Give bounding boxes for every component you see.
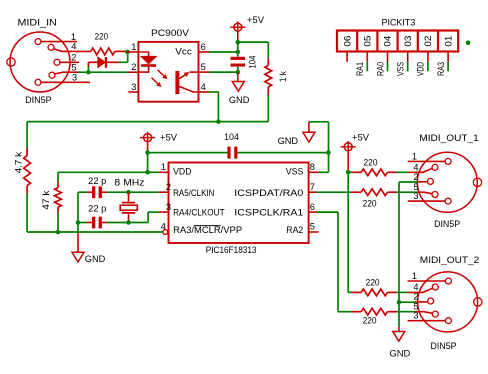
header J1 body bbox=[337, 31, 458, 52]
wire 47k top to VDD net bbox=[58, 171, 148, 173]
microcontroller U2 value label bbox=[206, 245, 257, 255]
header J1 pin 06 stub bbox=[346, 52, 348, 62]
svg-text:Vcc: Vcc bbox=[175, 47, 192, 57]
wire OUT1 pin2 to GND net bbox=[399, 182, 417, 302]
svg-text:5: 5 bbox=[72, 62, 77, 72]
+5V supply symbol (PIC) bbox=[140, 132, 178, 153]
svg-text:+5V: +5V bbox=[352, 133, 370, 143]
wire GND/cap to VSS bbox=[319, 122, 329, 173]
opto-coupler U1 body bbox=[138, 42, 198, 102]
header J1 pin 06 label bbox=[342, 36, 352, 47]
opto-coupler U1 pin 5 bbox=[199, 62, 210, 72]
svg-text:4: 4 bbox=[413, 162, 418, 172]
svg-text:MIDI_OUT_1: MIDI_OUT_1 bbox=[419, 133, 479, 143]
svg-text:4: 4 bbox=[413, 282, 418, 292]
header J1 pin 04 label bbox=[383, 36, 393, 47]
wire diode anode to pin5 net bbox=[87, 62, 89, 72]
svg-text:ICSPDAT/RA0: ICSPDAT/RA0 bbox=[234, 188, 303, 198]
svg-text:220: 220 bbox=[364, 158, 378, 168]
header J1 pin 01 label bbox=[443, 36, 453, 47]
ground symbol (MIDI_OUT) bbox=[393, 327, 405, 341]
microcontroller U2 pin 8 VSS bbox=[286, 162, 319, 177]
connector MIDI_OUT_2 pin 2 bbox=[413, 292, 433, 304]
wire MCLR net bbox=[27, 231, 163, 233]
connector MIDI_IN pin 5 bbox=[49, 62, 78, 78]
capacitor 22p upper value label bbox=[88, 176, 106, 186]
microcontroller U2 pin 6 ICSPCLK/RA1 bbox=[234, 202, 316, 217]
svg-text:GND: GND bbox=[389, 349, 410, 359]
resistor 220 (OUT1 +5V) bbox=[348, 169, 408, 176]
svg-text:104: 104 bbox=[248, 56, 258, 69]
wire 1k to output net bbox=[267, 95, 269, 122]
svg-text:2: 2 bbox=[413, 172, 418, 182]
header J1 pin stub net RA0 bbox=[387, 52, 389, 72]
wire PC900V pin5 to GND node bbox=[209, 71, 238, 73]
ground symbol (PC900V) bbox=[232, 72, 244, 91]
svg-text:MIDI_OUT_2: MIDI_OUT_2 bbox=[420, 255, 480, 265]
connector MIDI_OUT_1 DIN5P body bbox=[417, 152, 481, 212]
junction node +5V out bbox=[346, 170, 351, 175]
svg-text:4: 4 bbox=[201, 82, 206, 92]
svg-text:3: 3 bbox=[166, 202, 171, 212]
connector MIDI_OUT_1 DIN5P label bbox=[434, 219, 460, 229]
svg-text:RA3: RA3 bbox=[436, 62, 446, 76]
svg-text:3: 3 bbox=[413, 311, 418, 321]
capacitor 22p lower value label bbox=[88, 203, 106, 213]
microcontroller U2 pin 7 ICSPDAT/RA0 bbox=[234, 182, 316, 198]
opto-coupler U1 light arrows bbox=[152, 70, 167, 87]
svg-text:7: 7 bbox=[310, 182, 315, 192]
svg-text:DIN5P: DIN5P bbox=[434, 219, 460, 229]
junction node at R220/PC900V pin1 bbox=[125, 50, 130, 55]
svg-text:RA0: RA0 bbox=[375, 62, 385, 76]
crystal Q1 8MHz bbox=[120, 192, 137, 222]
svg-text:GND: GND bbox=[229, 95, 250, 105]
resistor 220 value label bbox=[95, 31, 109, 41]
resistor 220 (OUT1 +5V) value label bbox=[364, 158, 378, 168]
header J1 pin stub net RA1 bbox=[366, 52, 368, 72]
svg-text:8: 8 bbox=[310, 162, 315, 172]
svg-text:220: 220 bbox=[95, 31, 109, 41]
microcontroller U2 pin 4 RA3/MCLR/VPP bbox=[161, 222, 242, 236]
connector MIDI_OUT_1 pin 3 bbox=[408, 191, 451, 204]
svg-text:47 k: 47 k bbox=[41, 190, 51, 210]
svg-text:+5V: +5V bbox=[160, 133, 178, 143]
svg-text:22 p: 22 p bbox=[88, 203, 106, 213]
microcontroller U2 pin 5 RA2 bbox=[286, 222, 318, 236]
connector MIDI_OUT_2 DIN5P body bbox=[418, 272, 482, 332]
ground label GND (VSS) bbox=[278, 136, 299, 146]
opto-coupler U1 pin 6 Vcc bbox=[199, 42, 210, 52]
wire RA4 net bbox=[107, 212, 159, 222]
resistor 220 (OUT2 RA1) value label bbox=[363, 316, 377, 326]
opto-coupler U1 pin 2 label bbox=[131, 62, 136, 72]
wire VDD to PIC pin1 bbox=[148, 171, 169, 173]
svg-text:PIC16F18313: PIC16F18313 bbox=[206, 245, 257, 255]
wire MIDI_IN pin5 to PC900V pin2 bbox=[78, 71, 138, 73]
svg-text:2: 2 bbox=[413, 292, 418, 302]
crystal 8 MHz value label bbox=[114, 177, 144, 187]
wire OUT GND down bbox=[398, 302, 400, 327]
resistor 220 (OUT1 RA0) bbox=[317, 189, 418, 196]
svg-text:01: 01 bbox=[443, 36, 453, 47]
ground label GND bbox=[229, 95, 250, 105]
connector MIDI_IN DIN5P label bbox=[25, 95, 51, 105]
header J1 pin stub net RA3 bbox=[447, 52, 449, 72]
junction node cap/VSS bbox=[326, 150, 331, 155]
junction node crystal bottom bbox=[126, 220, 131, 225]
opto-coupler U1 internal LED bbox=[138, 52, 156, 72]
svg-text:GND: GND bbox=[85, 254, 106, 264]
svg-text:PICKIT3: PICKIT3 bbox=[382, 18, 416, 28]
svg-text:2: 2 bbox=[166, 182, 171, 192]
connector MIDI_OUT_1 pin 5 bbox=[413, 182, 438, 197]
wire output net to 4.7k bbox=[26, 122, 28, 148]
ground symbol (VSS) bbox=[303, 122, 329, 142]
svg-text:4: 4 bbox=[71, 42, 76, 52]
svg-text:3: 3 bbox=[413, 191, 418, 201]
net label RA1 bbox=[355, 62, 365, 76]
resistor 4.7k bbox=[24, 148, 31, 194]
svg-text:220: 220 bbox=[363, 198, 377, 208]
svg-text:03: 03 bbox=[403, 36, 413, 47]
connector MIDI_IN pin 3 bbox=[35, 73, 90, 86]
junction node 47k/MCLR bbox=[56, 230, 61, 235]
wire output net horizontal bbox=[27, 121, 268, 123]
wire +5V to 1k and cap bbox=[238, 42, 268, 58]
opto-coupler U1 pin 1 bbox=[127, 42, 138, 52]
wire RA1 to OUT2 resistor bbox=[317, 212, 353, 312]
svg-text:MIDI_IN: MIDI_IN bbox=[18, 17, 57, 27]
capacitor 22p upper bbox=[78, 186, 107, 198]
header J1 PICKIT3 label bbox=[382, 18, 416, 28]
svg-text:2: 2 bbox=[71, 53, 76, 63]
resistor 220 (MIDI_IN series) bbox=[91, 48, 128, 55]
connector MIDI_OUT_2 pin 3 bbox=[408, 311, 452, 324]
resistor 220 (OUT1 RA0) value label bbox=[363, 198, 377, 208]
svg-text:GND: GND bbox=[278, 136, 299, 146]
svg-text:RA4/CLKOUT: RA4/CLKOUT bbox=[173, 207, 225, 217]
+5V supply symbol (MIDI_OUT) bbox=[341, 133, 370, 173]
connector MIDI_OUT_1 pin 1 bbox=[408, 151, 451, 164]
resistor 4.7k value label bbox=[13, 152, 23, 174]
resistor 47k value label bbox=[41, 190, 51, 210]
junction node +5V/104 bbox=[236, 40, 241, 54]
svg-text:4.7 k: 4.7 k bbox=[13, 152, 23, 174]
svg-text:22 p: 22 p bbox=[88, 176, 106, 186]
connector MIDI_IN pin 1 bbox=[35, 32, 77, 45]
svg-text:DIN5P: DIN5P bbox=[431, 341, 457, 351]
connector MIDI_IN label bbox=[18, 17, 57, 27]
junction node OUT grounds bbox=[397, 300, 402, 305]
diode D1 bbox=[88, 57, 118, 68]
connector MIDI_OUT_1 pin 2 bbox=[413, 172, 433, 185]
connector MIDI_OUT_1 pin 4 bbox=[408, 162, 438, 172]
junction node cap/GND bbox=[236, 70, 241, 75]
svg-text:1 k: 1 k bbox=[278, 71, 288, 82]
junction node 22p/GND bbox=[76, 220, 81, 225]
svg-text:VSS: VSS bbox=[396, 62, 406, 76]
microcontroller U2 body bbox=[169, 163, 309, 244]
+5V supply symbol (PC900V) bbox=[230, 15, 265, 42]
svg-text:1: 1 bbox=[131, 42, 136, 52]
connector MIDI_OUT_1 label bbox=[419, 133, 479, 143]
resistor 47k bbox=[55, 172, 62, 232]
svg-text:2: 2 bbox=[131, 62, 136, 72]
resistor 220 (OUT2 +5V) value label bbox=[366, 278, 380, 288]
svg-text:RA1: RA1 bbox=[355, 62, 365, 76]
svg-text:1: 1 bbox=[412, 151, 417, 161]
junction node crystal top bbox=[126, 190, 131, 195]
opto-coupler U1 name label PC900V bbox=[151, 28, 190, 38]
capacitor 104 (PIC bypass) value label bbox=[224, 132, 239, 142]
svg-text:+5V: +5V bbox=[247, 15, 265, 25]
wire RA5 net bbox=[107, 191, 159, 193]
resistor 1k bbox=[265, 58, 272, 94]
connector MIDI_OUT_2 DIN5P label bbox=[431, 341, 457, 351]
microcontroller U2 pin 2 RA5/CLKIN bbox=[159, 182, 215, 198]
svg-text:VDD: VDD bbox=[416, 62, 426, 76]
net label RA3 bbox=[436, 62, 446, 76]
svg-text:220: 220 bbox=[366, 278, 380, 288]
net label VSS bbox=[396, 62, 406, 76]
header J1 pin stub net VDD bbox=[427, 52, 429, 72]
connector MIDI_IN pin 4 bbox=[48, 42, 91, 52]
svg-text:6: 6 bbox=[310, 202, 315, 212]
connector MIDI_OUT_2 pin 5 bbox=[413, 302, 438, 317]
svg-text:1: 1 bbox=[161, 162, 166, 172]
svg-text:5: 5 bbox=[201, 62, 206, 72]
ground label GND (crystal) bbox=[85, 254, 106, 264]
wire PC900V pin6 to +5V node bbox=[209, 51, 238, 53]
svg-text:104: 104 bbox=[224, 132, 239, 142]
svg-text:1: 1 bbox=[71, 32, 76, 42]
capacitor 104 (PC900V bypass) bbox=[231, 52, 246, 72]
svg-text:5: 5 bbox=[310, 222, 315, 232]
svg-text:1: 1 bbox=[412, 271, 417, 281]
capacitor 104 (PIC bypass) bbox=[148, 147, 329, 159]
opto-coupler U1 Vcc label bbox=[175, 47, 192, 57]
resistor 220 (OUT2 +5V) bbox=[352, 289, 407, 296]
svg-text:02: 02 bbox=[423, 36, 433, 47]
wire +5V to OUT2 resistor bbox=[348, 172, 352, 292]
svg-text:ICSPCLK/RA1: ICSPCLK/RA1 bbox=[234, 207, 303, 217]
svg-text:RA2: RA2 bbox=[286, 225, 303, 235]
capacitor 104 value label bbox=[248, 56, 258, 69]
svg-text:PC900V: PC900V bbox=[151, 28, 190, 38]
wire 4.7k to MCLR net bbox=[26, 194, 28, 233]
microcontroller U2 pin 3 RA4/CLKOUT bbox=[159, 202, 225, 217]
svg-text:DIN5P: DIN5P bbox=[25, 95, 51, 105]
svg-text:3: 3 bbox=[72, 73, 77, 83]
connector MIDI_OUT_2 pin 4 bbox=[408, 282, 439, 292]
resistor 1k value label bbox=[278, 71, 288, 82]
svg-text:04: 04 bbox=[383, 36, 393, 47]
svg-text:05: 05 bbox=[363, 36, 373, 47]
connector MIDI_OUT_2 pin 1 bbox=[408, 271, 452, 284]
wire OUT2 pin2 branch bbox=[399, 301, 428, 303]
header J1 pin 03 label bbox=[403, 36, 413, 47]
junction node +5V/VDD bbox=[145, 150, 150, 174]
header J1 pin 05 label bbox=[363, 36, 373, 47]
connector MIDI_OUT_2 label bbox=[420, 255, 480, 265]
svg-text:6: 6 bbox=[201, 42, 206, 52]
header J1 pin stub net VSS bbox=[407, 52, 409, 72]
svg-text:VSS: VSS bbox=[286, 167, 304, 177]
ground label GND (MIDI_OUT) bbox=[389, 349, 410, 359]
svg-text:VDD: VDD bbox=[173, 167, 192, 177]
svg-text:06: 06 bbox=[342, 36, 352, 47]
ground symbol (crystal) bbox=[72, 233, 84, 262]
connector MIDI_IN pin 2 bbox=[54, 53, 79, 66]
svg-text:RA3/MCLR/VPP: RA3/MCLR/VPP bbox=[173, 225, 242, 235]
node dot right of header bbox=[466, 40, 471, 45]
opto-coupler U1 pin 4 bbox=[199, 82, 209, 92]
opto-coupler U1 internal phototransistor bbox=[175, 71, 198, 94]
net label VDD bbox=[416, 62, 426, 76]
svg-text:3: 3 bbox=[131, 82, 136, 92]
svg-text:RA5/CLKIN: RA5/CLKIN bbox=[173, 188, 214, 198]
wire net from junction down to diode cathode bbox=[118, 52, 128, 62]
wire PC900V pin4 down to output net bbox=[209, 92, 219, 122]
header J1 pin 02 label bbox=[423, 36, 433, 47]
wire 22p caps to GND bbox=[77, 192, 79, 233]
svg-text:8 MHz: 8 MHz bbox=[114, 177, 144, 187]
opto-coupler U1 pin 3 bbox=[129, 82, 139, 92]
resistor 220 (OUT2 RA1) bbox=[352, 308, 415, 315]
svg-text:220: 220 bbox=[363, 316, 377, 326]
capacitor 22p lower bbox=[78, 217, 107, 229]
connector MIDI_IN DIN5P body bbox=[7, 32, 70, 92]
junction node output net bbox=[216, 119, 221, 124]
net label RA0 bbox=[375, 62, 385, 76]
junction node diode/pin5 net bbox=[86, 70, 91, 75]
microcontroller U2 pin 1 VDD bbox=[161, 162, 192, 177]
